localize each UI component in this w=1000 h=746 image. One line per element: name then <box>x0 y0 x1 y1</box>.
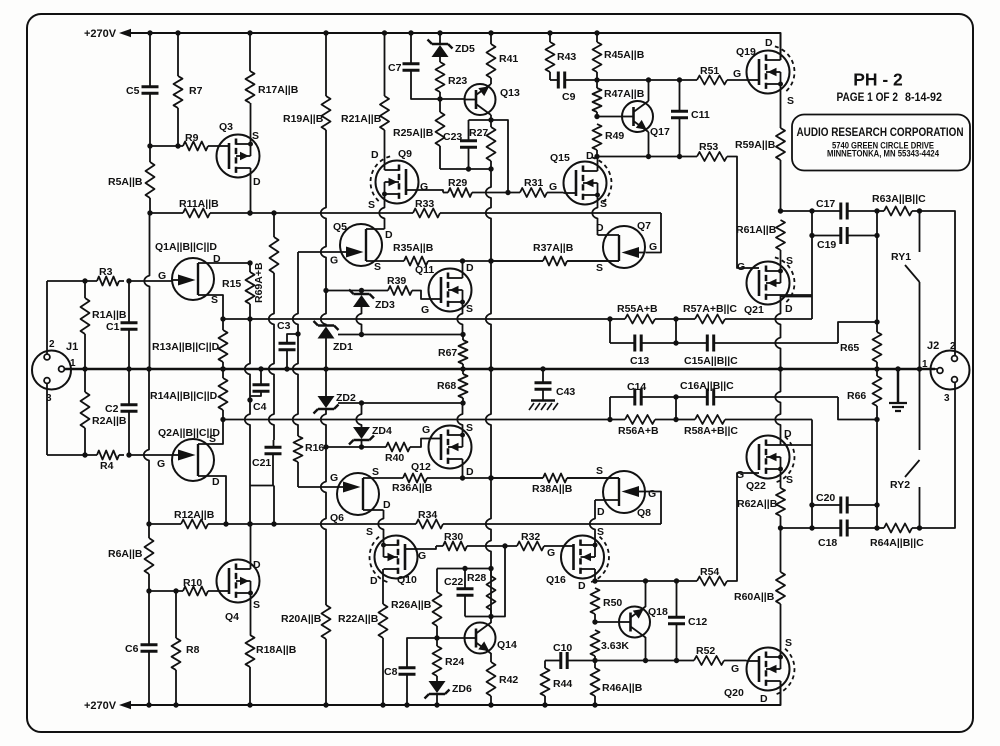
svg-text:C6: C6 <box>125 643 139 655</box>
resistor R32 <box>517 542 544 551</box>
svg-text:R58A+B||C: R58A+B||C <box>684 425 738 437</box>
transistor Q19 <box>747 51 790 94</box>
wire R23 leads <box>439 57 441 99</box>
capacitor C1 <box>121 323 138 329</box>
junction top rail <box>247 30 252 35</box>
junction top rail <box>408 30 413 35</box>
svg-text:Q17: Q17 <box>650 126 670 138</box>
svg-text:C5: C5 <box>126 85 140 97</box>
resistor R40 <box>386 443 410 452</box>
wire R54 right <box>727 473 747 581</box>
wire C19 line <box>812 235 877 237</box>
svg-text:Q6: Q6 <box>330 512 344 524</box>
junction R4-C2 <box>126 452 131 457</box>
capacitor C13 <box>635 335 641 352</box>
wire x298 gate rail <box>293 252 298 436</box>
svg-text:S: S <box>466 303 473 315</box>
wire Q17 base lead <box>597 116 622 118</box>
junction ZD4-y403 <box>359 400 364 405</box>
wire R8 leads <box>175 591 177 705</box>
wire y581 line <box>595 580 697 582</box>
wire C9 line <box>550 79 558 81</box>
junction Q14 base <box>434 635 439 640</box>
svg-text:C16A||B||C: C16A||B||C <box>680 380 734 392</box>
svg-text:R59A||B: R59A||B <box>735 139 776 151</box>
wire Q22 D line <box>781 444 813 446</box>
wire C22 leads <box>464 569 466 617</box>
wire ZD4 lower <box>361 440 363 447</box>
svg-text:C15A||B||C: C15A||B||C <box>684 355 738 367</box>
svg-text:Q14: Q14 <box>497 639 517 651</box>
svg-text:R12A||B: R12A||B <box>174 509 215 521</box>
resistor R27 <box>487 127 496 161</box>
junction y660 3.63K <box>592 658 597 663</box>
svg-text:D: D <box>212 476 220 488</box>
svg-text:G: G <box>422 424 430 436</box>
junction bottom rail <box>380 702 385 707</box>
wire R20 lead <box>325 639 327 705</box>
svg-text:R54: R54 <box>700 566 719 578</box>
svg-text:G: G <box>648 488 656 500</box>
junction y156 R49 <box>594 154 599 159</box>
svg-text:C22: C22 <box>444 576 463 588</box>
wire C1 leads <box>128 281 130 369</box>
resistor R65 <box>873 332 882 362</box>
resistor R14A||B||C||D <box>219 378 228 410</box>
svg-text:Q18: Q18 <box>648 606 668 618</box>
svg-text:R17A||B: R17A||B <box>258 84 299 96</box>
wire Q5 gate wire <box>298 251 340 253</box>
svg-text:D: D <box>597 506 605 518</box>
capacitor C9 <box>558 72 564 89</box>
svg-text:D: D <box>371 149 379 161</box>
junction C18-R62 <box>778 525 783 530</box>
svg-text:D: D <box>760 693 768 705</box>
wire C3 upper <box>287 334 298 343</box>
svg-text:Q19: Q19 <box>736 46 756 58</box>
svg-text:D: D <box>253 559 261 571</box>
resistor R17A||B <box>246 71 255 103</box>
junction bottom rail <box>146 702 151 707</box>
junction y524 x226 <box>223 521 228 526</box>
wire Q15 D riser <box>597 157 599 172</box>
resistor R53 <box>697 152 727 161</box>
wire y524 line <box>149 523 661 525</box>
resistor R6A||B <box>145 538 154 574</box>
wire Q11 D riser <box>462 261 464 278</box>
junction ZD2-R40line <box>323 444 328 449</box>
junction ZD4-R40 <box>359 444 364 449</box>
wire R2 leads <box>84 369 86 455</box>
wire y660 line <box>567 660 694 662</box>
svg-text:R51: R51 <box>700 65 719 77</box>
wire y319 right section <box>610 318 812 320</box>
junction Q12D-R36 <box>460 475 465 480</box>
junction y319 x610 <box>607 316 612 321</box>
svg-text:R7: R7 <box>189 85 203 97</box>
transistor Q18 <box>619 607 650 638</box>
wire Q8 D line <box>595 499 619 501</box>
transistor Q2 <box>172 439 214 481</box>
wire R3 line <box>47 280 124 282</box>
svg-text:R3: R3 <box>99 266 113 278</box>
wire R52 right <box>724 660 747 662</box>
junction Q12S-y403 <box>460 400 465 405</box>
capacitor C17 <box>841 203 847 220</box>
resistor R7 <box>174 76 183 108</box>
junction Q11D-R35 <box>460 258 465 263</box>
junction top rail <box>437 30 442 35</box>
svg-text:C43: C43 <box>556 386 575 398</box>
svg-text:Q20: Q20 <box>724 687 744 699</box>
junction C20 x877 <box>874 502 879 507</box>
wire R62 lead <box>780 516 782 528</box>
junction x150 R12 <box>146 521 151 526</box>
svg-text:G: G <box>420 181 428 193</box>
svg-text:ZD3: ZD3 <box>375 299 395 311</box>
resistor R49 <box>593 124 602 150</box>
junction y120 <box>488 117 493 122</box>
svg-text:Q9: Q9 <box>398 148 412 160</box>
wire bus419 line <box>223 419 812 421</box>
svg-text:G: G <box>731 663 739 675</box>
svg-text:AUDIO RESEARCH CORPORATION: AUDIO RESEARCH CORPORATION <box>797 125 964 139</box>
junction bottom rail <box>173 702 178 707</box>
wire R67 leads <box>462 335 464 370</box>
wire x274 rail <box>269 273 274 440</box>
svg-text:C18: C18 <box>818 537 837 549</box>
junction R4-R2 <box>82 452 87 457</box>
svg-text:C4: C4 <box>253 401 267 413</box>
svg-text:D: D <box>370 575 378 587</box>
wire Q14 emitter <box>490 653 492 662</box>
svg-text:Q21: Q21 <box>744 304 764 316</box>
resistor R55A+B <box>625 315 655 324</box>
svg-text:R66: R66 <box>847 390 866 402</box>
resistor R36A||B <box>403 474 427 483</box>
resistor R52 <box>694 656 724 665</box>
svg-text:R55A+B: R55A+B <box>617 303 658 315</box>
wire R26 leads <box>436 569 438 639</box>
wire R49 lead <box>596 150 598 157</box>
junction Q1S-y319 <box>220 316 225 321</box>
capacitor C3 <box>279 343 296 349</box>
svg-text:R38A||B: R38A||B <box>532 483 573 495</box>
wire x326 upper rail <box>321 130 326 291</box>
wire R16 lower <box>297 462 299 487</box>
wire y616 line <box>465 546 505 617</box>
svg-text:D: D <box>586 150 594 162</box>
svg-text:R61A||B: R61A||B <box>736 224 777 236</box>
wire R14 leads <box>222 369 224 420</box>
wire C23 leads <box>468 120 470 169</box>
wire C17 line <box>781 210 878 212</box>
svg-text:D: D <box>466 262 474 274</box>
wire R37 line <box>491 260 619 262</box>
junction top rail <box>323 30 328 35</box>
svg-text:ZD6: ZD6 <box>452 683 472 695</box>
junction y524 x250 <box>247 521 252 526</box>
resistor R5A||B <box>146 162 155 198</box>
wire R18 lead <box>249 667 251 705</box>
junction y581 C12 <box>674 578 679 583</box>
wire Q13 base <box>440 98 465 100</box>
junction top rail <box>547 30 552 35</box>
svg-text:C14: C14 <box>627 381 646 393</box>
resistor R57A+B||C <box>695 315 725 324</box>
wire R9 line <box>150 145 217 147</box>
svg-text:Q8: Q8 <box>637 507 651 519</box>
junction bottom rail <box>488 702 493 707</box>
svg-text:C2: C2 <box>105 403 119 415</box>
wire R13 leads <box>222 319 224 369</box>
resistor R58A+B||C <box>695 415 725 424</box>
wire R45 leads <box>596 33 598 80</box>
wire R6 leads <box>148 524 150 591</box>
resistor R60A||B <box>776 572 785 604</box>
junction y213 x274 <box>271 210 276 215</box>
wire R27 leads <box>490 120 492 169</box>
transistor Q5 <box>340 224 382 266</box>
svg-text:R44: R44 <box>553 678 572 690</box>
svg-text:R60A||B: R60A||B <box>734 591 775 603</box>
resistor R30 <box>443 542 467 551</box>
wire gate Q2 <box>129 454 172 456</box>
svg-text:R69A+B: R69A+B <box>253 262 265 303</box>
svg-text:8-14-92: 8-14-92 <box>905 92 942 104</box>
junction top rail <box>175 30 180 35</box>
wire C10 left <box>545 660 561 662</box>
wire Q12 S riser <box>457 403 462 435</box>
resistor R1A||B <box>81 298 90 334</box>
svg-text:R67: R67 <box>438 347 457 359</box>
resistor R37A||B <box>543 257 567 266</box>
resistor R18A||B <box>246 635 255 667</box>
wire R66 leads <box>876 369 878 420</box>
wire Q3 S riser <box>250 103 252 144</box>
wire C8 leads <box>407 638 437 705</box>
resistor R35A||B <box>404 257 428 266</box>
svg-text:R32: R32 <box>521 531 540 543</box>
wire ZD3 top <box>361 291 363 295</box>
resistor R8 <box>172 638 181 670</box>
relay RY1 <box>919 211 921 252</box>
wire Q21 D riser <box>775 295 780 369</box>
capacitor C4 <box>253 385 270 391</box>
svg-text:Q16: Q16 <box>546 574 566 586</box>
wire x676 upper link <box>675 397 677 420</box>
capacitor C15A||B||C <box>707 335 713 352</box>
junction C17 x812 <box>809 208 814 213</box>
resistor R21A||B <box>380 96 389 130</box>
junction y156 Q17e <box>646 154 651 159</box>
junction ZD3-y334 <box>359 332 364 337</box>
wire R19 leads <box>325 33 327 96</box>
junction bottom rail <box>542 702 547 707</box>
wire R25 leads <box>439 99 441 169</box>
svg-text:R42: R42 <box>499 674 518 686</box>
resistor R23 <box>436 62 445 92</box>
+270V top arrow <box>119 29 131 37</box>
svg-text:D: D <box>466 466 474 478</box>
junction center bus <box>258 366 263 371</box>
junction R7-R9 <box>175 143 180 148</box>
wire R10 line <box>149 590 217 592</box>
svg-text:2: 2 <box>950 341 956 352</box>
wire C4 leads <box>250 369 261 396</box>
wire Q6 D tap <box>363 509 384 511</box>
svg-text:R50: R50 <box>603 597 622 609</box>
wire Q21 D line <box>781 294 813 296</box>
zener ZD6 <box>425 690 450 699</box>
wire J1 pin3 down <box>46 384 48 456</box>
junction center bus <box>323 366 328 371</box>
wire Q20 D riser <box>780 681 782 705</box>
center bus wire <box>64 368 935 371</box>
wire C7 leads <box>411 33 440 99</box>
resistor R68 <box>459 374 468 398</box>
wire R46 leads <box>594 661 596 706</box>
ground near J2 <box>897 369 900 402</box>
wire ZD1 to bus <box>325 339 327 370</box>
junction R5-R11 <box>147 210 152 215</box>
junction C9-R45 <box>594 77 599 82</box>
junction R36-x491 <box>488 475 493 480</box>
wire x610 link <box>609 319 611 343</box>
wire y568 line <box>437 568 491 570</box>
svg-text:RY2: RY2 <box>890 479 910 491</box>
wire Q18 collector <box>645 581 647 607</box>
wire Q19 S riser <box>780 84 782 128</box>
wire Q17 collector <box>648 80 650 101</box>
transistor Q17 <box>622 101 653 132</box>
junction bus419 x610 <box>607 417 612 422</box>
svg-text:R68: R68 <box>437 380 456 392</box>
junction center bus <box>126 366 131 371</box>
junction R13-bus <box>220 366 225 371</box>
svg-text:S: S <box>253 599 260 611</box>
wire C15 line <box>676 342 838 344</box>
svg-text:R35A||B: R35A||B <box>393 242 434 254</box>
svg-text:D: D <box>383 499 391 511</box>
junction R63-RY1 <box>917 208 922 213</box>
wire R39 line <box>326 291 429 300</box>
wire Q1 D tap <box>198 262 250 264</box>
wire Q5 D tap <box>366 228 385 230</box>
resistor R28 <box>487 576 496 610</box>
junction bottom rail <box>323 702 328 707</box>
wire R1 leads <box>84 281 86 369</box>
resistor R44 <box>541 668 550 696</box>
svg-text:C1: C1 <box>106 321 120 333</box>
svg-text:S: S <box>597 526 604 538</box>
resistor R59A||B <box>776 128 785 160</box>
wire Q7 gate drop <box>646 213 662 253</box>
junction x877-y322 <box>874 319 879 324</box>
resistor R64A||B||C <box>884 524 912 533</box>
svg-text:S: S <box>374 261 381 273</box>
zener ZD3 <box>349 290 374 299</box>
svg-text:G: G <box>737 261 745 273</box>
wire Q19 D riser <box>780 33 782 60</box>
junction y319 x676 <box>673 316 678 321</box>
svg-text:R37A||B: R37A||B <box>533 242 574 254</box>
junction C14-x676 <box>673 394 678 399</box>
resistor R43 <box>546 42 555 72</box>
svg-text:G: G <box>418 550 426 562</box>
wire ZD2 top <box>325 369 327 396</box>
junction R29-R31 <box>505 190 510 195</box>
wire R68 leads <box>462 369 464 403</box>
capacitor C12 <box>668 617 685 623</box>
svg-text:R15: R15 <box>222 278 241 290</box>
junction C19 x877 <box>874 233 879 238</box>
wire R31 leads <box>508 192 564 194</box>
wire R42 lead <box>490 696 492 705</box>
resistor R33 <box>413 209 440 218</box>
svg-text:R23: R23 <box>448 75 467 87</box>
transistor Q20 <box>747 648 790 691</box>
svg-text:R2A||B: R2A||B <box>92 415 127 427</box>
resistor R22A||B <box>379 604 388 638</box>
wire C13 line <box>610 342 676 344</box>
junction Q1D-R15 <box>247 260 252 265</box>
wire x326 to ZD1 <box>321 291 326 326</box>
wire R17 lead <box>249 33 251 71</box>
junction C23-y169 <box>466 166 471 171</box>
wire R69 top lead <box>273 213 275 237</box>
svg-text:C11: C11 <box>691 109 710 121</box>
wire J2 pin1 <box>920 368 938 370</box>
resistor R67 <box>459 340 468 364</box>
svg-text:C12: C12 <box>688 616 707 628</box>
svg-text:D: D <box>578 580 586 592</box>
capacitor C21 <box>265 447 282 453</box>
transistor Q16 <box>561 536 604 579</box>
junction y660 Q18e <box>643 658 648 663</box>
wire Q11 S riser <box>457 302 462 335</box>
wire R29 line <box>443 192 448 194</box>
wire C16 line <box>676 396 838 398</box>
junction C20 x812 <box>809 502 814 507</box>
resistor R25A||B <box>436 112 445 146</box>
wire R50 lead <box>594 614 596 622</box>
wire C21 lower <box>272 454 274 486</box>
svg-text:R46A||B: R46A||B <box>602 682 643 694</box>
capacitor C11 <box>671 111 688 117</box>
svg-text:ZD1: ZD1 <box>333 341 353 353</box>
svg-text:R57A+B||C: R57A+B||C <box>683 303 737 315</box>
resistor R34 <box>416 520 443 529</box>
connector J2 <box>931 351 970 390</box>
svg-text:Q12: Q12 <box>411 461 431 473</box>
wire x812 lower <box>811 420 813 529</box>
svg-text:R53: R53 <box>699 141 718 153</box>
wire J1 pin2 up <box>46 281 48 354</box>
svg-text:D: D <box>784 428 792 440</box>
wire R60 leads <box>780 528 782 657</box>
junction R39-x326 <box>323 288 328 293</box>
junction Q13 base <box>437 96 442 101</box>
wire Q13 emitter <box>490 78 492 84</box>
wire R63 right <box>912 211 955 355</box>
wire Q2 S tap <box>198 420 223 445</box>
resistor 3.63K <box>591 630 600 656</box>
junction Q3D-R11 <box>247 210 252 215</box>
svg-text:R45A||B: R45A||B <box>604 49 645 61</box>
wire R22 lead <box>382 569 384 705</box>
svg-text:R62A||B: R62A||B <box>737 498 778 510</box>
